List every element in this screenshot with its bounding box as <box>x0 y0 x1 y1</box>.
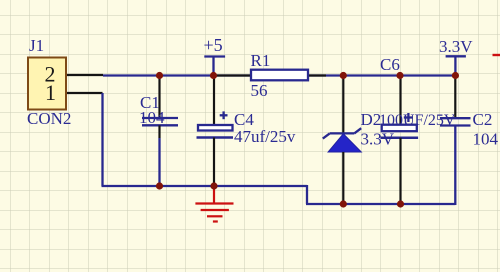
node: C1 top junction <box>156 72 163 79</box>
svg-text:3.3V: 3.3V <box>439 37 473 56</box>
C4 polarity plus sign <box>220 114 228 116</box>
D2 cathode bar <box>330 132 355 134</box>
wire: J1 pin 1 lead segment <box>66 92 103 94</box>
C6 top plate <box>382 125 417 132</box>
wire: left vertical from pin 1 down to ground rail <box>101 93 103 186</box>
C4 bottom plate <box>197 136 234 139</box>
node: +5 / C4 top junction <box>210 72 217 79</box>
node: C1 bottom junction <box>156 182 163 189</box>
wire: top +5 rail (J1 pin2 to 3.3V corner) <box>103 74 456 76</box>
node: C4 bottom / ground junction <box>210 182 217 189</box>
C6 top pin <box>399 76 401 125</box>
capacitor C4 (electrolytic) <box>197 76 296 187</box>
wire: lower-right ground rail <box>306 203 455 205</box>
C1 bottom pin <box>158 125 160 138</box>
svg-text:47uf/25v: 47uf/25v <box>234 127 296 146</box>
power port +5 <box>204 35 226 76</box>
wire: J1 pin 2 lead segment <box>66 74 103 76</box>
node: C6 bottom junction <box>397 200 404 207</box>
wire: right vertical up to C2 bottom plate <box>454 126 456 205</box>
svg-text:R1: R1 <box>251 51 271 70</box>
C1 top pin <box>158 76 160 119</box>
svg-text:C6: C6 <box>380 55 400 74</box>
C6 polarity plus sign <box>404 116 413 118</box>
wire: R1 pin 1 lead segment <box>214 74 251 76</box>
wire: ground rail step down <box>306 185 308 204</box>
svg-text:104: 104 <box>473 130 499 149</box>
node: D2 anode junction <box>340 200 347 207</box>
svg-text:CON2: CON2 <box>27 109 71 128</box>
wire: C1 bottom to ground rail <box>158 138 160 186</box>
capacitor C2 <box>440 76 499 149</box>
D2 cathode pin <box>342 76 344 134</box>
power port 3.3V <box>439 37 473 76</box>
power symbol fragment clipped at right edge <box>493 54 500 56</box>
svg-text:J1: J1 <box>29 36 44 55</box>
node: D2 cathode junction <box>340 72 347 79</box>
C4 top plate <box>198 125 233 131</box>
svg-text:56: 56 <box>251 81 268 100</box>
svg-text:3.3V: 3.3V <box>361 130 395 149</box>
wire: lower-left ground rail <box>102 185 308 187</box>
resistor R1 <box>251 51 309 100</box>
C1 top plate <box>142 117 178 119</box>
ground <box>195 186 233 222</box>
wire: R1 pin 2 lead segment <box>305 74 326 76</box>
node: C6 top junction <box>396 72 403 79</box>
D2 anode triangle <box>328 134 361 152</box>
C2 top plate <box>440 117 471 119</box>
diode D2 (zener) <box>323 76 395 205</box>
C6 bottom pin <box>399 138 401 204</box>
C4 top pin <box>213 76 215 126</box>
C4 bottom pin <box>213 138 215 187</box>
C6 bottom plate <box>380 136 418 139</box>
C2 top pin <box>454 76 456 119</box>
capacitor C6 (electrolytic) <box>379 55 456 204</box>
C1 bottom plate <box>142 124 178 126</box>
C2 bottom plate <box>440 124 471 126</box>
connector J1 <box>27 36 71 128</box>
svg-text:+5: +5 <box>204 35 223 55</box>
D2 anode pin <box>342 152 344 204</box>
svg-text:C2: C2 <box>473 110 493 129</box>
capacitor C1 <box>139 76 178 187</box>
node: 3.3V / C2 top junction <box>452 72 459 79</box>
svg-text:1: 1 <box>45 80 56 105</box>
svg-text:104: 104 <box>139 108 165 127</box>
